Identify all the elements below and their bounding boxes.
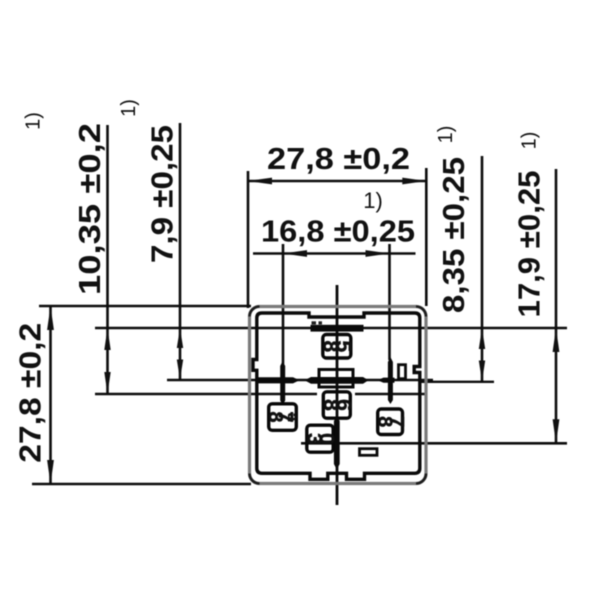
svg-text:1): 1): [363, 188, 383, 213]
wire vertical centerline x=337: [336, 285, 339, 505]
small tab rectangle right of pin 87a: [399, 365, 406, 379]
body corner arc top-right: [416, 307, 426, 317]
wire top edge extension left y=306: [39, 305, 251, 308]
wire horizontal centerline y=394 right segment: [355, 393, 426, 396]
pin 86 label box: [323, 392, 350, 418]
svg-text:1): 1): [435, 126, 457, 144]
wire reference line y=328 (pin 85 centerline): [95, 327, 567, 330]
pin 87 blade (left vertical): [280, 361, 285, 405]
body corner arc top-left: [250, 307, 260, 317]
pin 86 coil blade thick bar left segment: [258, 377, 300, 383]
dimension 16,8 dimension line: [253, 252, 416, 255]
svg-text:7: 7: [385, 416, 407, 427]
svg-text:27,8 ±0,2: 27,8 ±0,2: [13, 323, 48, 463]
svg-text:1): 1): [118, 99, 140, 117]
arrow down of 8,35: [479, 361, 485, 382]
svg-text:10,35 ±0,2: 10,35 ±0,2: [72, 123, 107, 295]
svg-text:7,9 ±0,25: 7,9 ±0,25: [145, 125, 180, 263]
pin 30 blade (bottom vertical): [334, 417, 340, 470]
wire horizontal centerline y=394 left segment: [95, 393, 317, 396]
dimension 7,9 dimension line: [179, 123, 182, 380]
dimension 27,8 left vertical dimension line: [49, 306, 52, 484]
svg-text:1): 1): [519, 132, 541, 150]
svg-text:17,9 ±0,25: 17,9 ±0,25: [512, 171, 547, 318]
svg-text:27,8 ±0,2: 27,8 ±0,2: [267, 141, 410, 176]
body corner arc bottom-left: [250, 474, 260, 484]
relay body outer contour: [250, 307, 427, 484]
arrow left of 16,8: [283, 250, 307, 257]
wire extension line x=248 (body left edge): [247, 171, 250, 308]
dimension 17,9 dimension line: [555, 169, 558, 443]
relay body inner contour with notches: [253, 313, 420, 479]
pin 85 label box: [323, 335, 351, 359]
svg-text:16,8 ±0,25: 16,8 ±0,25: [261, 214, 415, 249]
arrow left of top dimension: [248, 178, 272, 185]
arrow right of top dimension: [402, 178, 426, 185]
pin 87a blade (right vertical): [388, 357, 393, 404]
arrow up of 7,9: [177, 328, 183, 348]
pin 86 coil blade thick bar center segment: [305, 377, 369, 384]
svg-text:0: 0: [315, 433, 338, 445]
svg-text:8,35 ±0,25: 8,35 ±0,25: [436, 157, 471, 313]
small rectangular hole right of pin 30: [360, 449, 378, 456]
wire extension line x=426.3 (body right edge): [425, 168, 428, 306]
arrow up of 17,9: [553, 328, 560, 352]
pin 86 collar box (center): [319, 370, 353, 388]
pin 30 label box: [307, 425, 333, 452]
dimension 8,35 dimension line: [481, 156, 484, 382]
wire middle row line y=380: [167, 379, 433, 382]
wire extension line x=283 (pin 87 blade): [282, 244, 285, 364]
body corner arc bottom-right: [416, 474, 426, 484]
svg-text:1): 1): [23, 112, 45, 130]
tick marks above pin 85 slot: [312, 321, 317, 324]
pin 87a label box: [378, 409, 403, 435]
arrow down of 17,9: [553, 419, 560, 443]
pin 87 label box: [269, 404, 297, 431]
dimension 27,8 top dimension line: [248, 180, 426, 183]
arrow up of 10,35: [104, 328, 110, 350]
arrow right of 16,8: [366, 250, 390, 257]
arrow up of left 27,8: [47, 306, 54, 330]
arrow down of left 27,8: [47, 460, 54, 484]
dimension 10,35 dimension line: [106, 125, 109, 394]
wire middle row right extension y=381.8: [420, 381, 494, 383]
arrow down of 10,35: [104, 372, 110, 394]
svg-text:6: 6: [332, 399, 355, 411]
svg-text:a: a: [284, 413, 301, 422]
wire bottom edge extension left y=484: [32, 483, 251, 486]
arrow down of 7,9: [177, 360, 183, 380]
wire reference line y=443.3 (pin 30 centerline): [301, 442, 567, 445]
svg-text:5: 5: [332, 341, 355, 353]
wire extension line x=389.5 (pin 87a blade): [388, 244, 391, 360]
arrow up of 8,35: [479, 328, 485, 349]
pin 86 coil blade thick bar right segment: [378, 378, 395, 383]
pin 85 blade slot (horizontal, top): [311, 325, 364, 332]
